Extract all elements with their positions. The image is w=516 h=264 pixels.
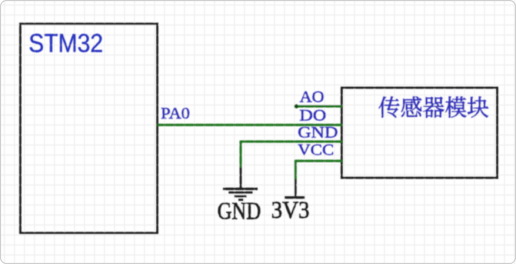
svg-text:DO: DO xyxy=(300,107,327,124)
component U2 sensor module box xyxy=(342,88,498,178)
label 传感器模块 xyxy=(379,96,489,117)
svg-text:STM32: STM32 xyxy=(29,30,104,58)
ground symbol stem xyxy=(240,167,242,188)
wire PA0 to DO xyxy=(157,124,342,126)
wire GND net horizontal xyxy=(241,140,342,142)
pin AO xyxy=(296,105,343,107)
component U1 STM32 box xyxy=(20,24,157,233)
wire VCC vertical drop xyxy=(294,160,296,179)
svg-text:3V3: 3V3 xyxy=(271,198,309,224)
power symbol 3V3 stem xyxy=(294,179,296,196)
svg-text:AO: AO xyxy=(300,89,325,106)
wire GND vertical drop xyxy=(240,141,242,168)
ground symbol bar 2 xyxy=(229,191,253,193)
ground symbol bar 3 xyxy=(234,195,246,197)
svg-text:GND: GND xyxy=(217,199,261,225)
ground symbol bar 1 xyxy=(223,188,258,191)
power symbol 3V3 bar xyxy=(285,196,305,199)
wire VCC horizontal xyxy=(296,160,343,162)
svg-text:GND: GND xyxy=(298,124,338,141)
pin AO end dot xyxy=(294,104,298,108)
ground symbol bar 4 xyxy=(238,199,243,201)
svg-text:VCC: VCC xyxy=(298,142,334,159)
svg-text:PA0: PA0 xyxy=(161,105,190,122)
